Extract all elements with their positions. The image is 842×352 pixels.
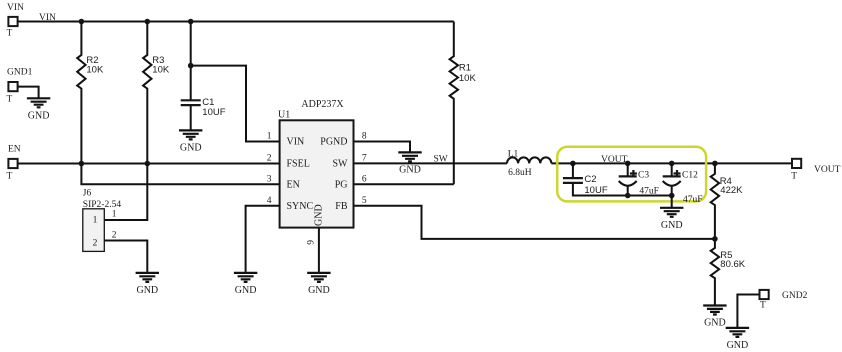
svg-text:47uF: 47uF	[683, 195, 703, 205]
svg-text:GND: GND	[308, 285, 330, 296]
inductor L1	[507, 149, 551, 178]
ground PGND	[398, 152, 421, 175]
ground under SYNC	[234, 273, 257, 296]
wire L1 to VOUT terminal	[551, 162, 791, 164]
ground under C12	[660, 208, 683, 231]
svg-text:9: 9	[307, 240, 317, 245]
svg-text:1: 1	[267, 132, 272, 142]
op-amp U1 ADP237X body	[278, 99, 354, 228]
svg-text:80.6K: 80.6K	[720, 259, 745, 270]
svg-text:2: 2	[267, 154, 272, 164]
wire PG pin 6 to R1	[354, 183, 454, 185]
node VIN-C1	[188, 19, 194, 25]
wire J6 pin 2 to ground	[104, 241, 147, 272]
svg-text:J6: J6	[83, 188, 92, 198]
resistor R4	[711, 161, 743, 239]
svg-text:47uF: 47uF	[639, 186, 659, 196]
wire SW pin 7 to L1	[354, 162, 508, 164]
svg-text:T: T	[7, 29, 13, 39]
svg-text:PG: PG	[335, 180, 348, 191]
svg-text:C2: C2	[584, 174, 596, 185]
ground GND1	[27, 98, 50, 121]
svg-text:SYNC: SYNC	[287, 201, 314, 212]
svg-text:T: T	[7, 172, 13, 182]
ground under GND2	[726, 328, 749, 351]
svg-text:VIN: VIN	[7, 3, 24, 13]
resistor R2	[77, 22, 104, 164]
svg-text:GND: GND	[661, 220, 683, 231]
svg-text:PGND: PGND	[320, 137, 347, 148]
node VIN-R3	[145, 19, 151, 25]
terminal GND1	[7, 68, 33, 105]
capacitor C12	[663, 161, 703, 206]
svg-text:VIN: VIN	[287, 137, 305, 148]
svg-text:T: T	[7, 95, 13, 105]
svg-text:8: 8	[362, 132, 367, 142]
svg-text:GND: GND	[180, 142, 202, 153]
capacitor C3	[619, 161, 659, 199]
svg-text:T: T	[791, 172, 797, 182]
wire C1 tap to U1 VIN pin 1	[191, 66, 280, 142]
terminal EN	[7, 145, 21, 182]
wire GND1 to ground	[18, 87, 38, 99]
node EN-R2	[79, 161, 85, 167]
svg-text:GND: GND	[704, 318, 726, 329]
wire GND2 to ground	[737, 295, 759, 328]
wire SYNC pin 4 to ground	[246, 206, 280, 272]
wire PGND pin 8 to ground	[354, 142, 411, 153]
ground under pin 9	[307, 273, 330, 296]
terminal GND2	[760, 290, 808, 310]
svg-text:GND: GND	[399, 164, 421, 175]
svg-text:1: 1	[93, 215, 98, 225]
svg-text:L1: L1	[508, 149, 519, 159]
svg-text:2: 2	[112, 231, 117, 241]
ground under R5	[703, 306, 726, 329]
svg-text:3: 3	[267, 175, 272, 185]
connector J6	[83, 188, 122, 251]
svg-text:10K: 10K	[152, 65, 170, 76]
svg-text:SW: SW	[434, 155, 448, 165]
wire FB pin 5 to divider	[354, 206, 715, 239]
node EN-R3	[145, 161, 151, 167]
svg-text:1: 1	[112, 209, 117, 219]
wire VIN rail	[18, 21, 454, 23]
wire C12 to ground	[671, 196, 673, 208]
resistor R3	[143, 22, 170, 164]
svg-text:U1: U1	[278, 110, 290, 121]
svg-text:C3: C3	[638, 171, 649, 181]
svg-text:6.8uH: 6.8uH	[508, 168, 532, 178]
svg-text:10UF: 10UF	[584, 185, 607, 196]
resistor R1	[450, 22, 477, 185]
node VIN-R2	[79, 19, 85, 25]
svg-text:2: 2	[93, 238, 98, 248]
ground under C1	[179, 130, 202, 153]
svg-text:SW: SW	[333, 158, 349, 169]
svg-text:GND2: GND2	[782, 291, 808, 301]
svg-text:10K: 10K	[86, 65, 104, 76]
svg-text:EN: EN	[287, 180, 300, 191]
svg-text:VOUT: VOUT	[601, 155, 628, 165]
terminal VOUT	[791, 159, 840, 182]
svg-text:VOUT: VOUT	[814, 165, 841, 175]
svg-text:422K: 422K	[720, 185, 743, 196]
terminal VIN	[7, 3, 25, 39]
capacitor C1	[181, 22, 226, 130]
capacitor C2	[563, 161, 672, 196]
wire R2 bottom to EN pin 3	[81, 164, 279, 185]
svg-text:10UF: 10UF	[202, 107, 225, 118]
highlight box around output caps	[557, 147, 706, 202]
svg-text:ADP237X: ADP237X	[301, 99, 344, 110]
svg-text:GND: GND	[235, 285, 257, 296]
svg-text:GND: GND	[314, 204, 325, 226]
svg-text:T: T	[760, 300, 766, 310]
wire R3 bottom to J6 pin 1	[104, 164, 147, 221]
svg-text:7: 7	[362, 154, 367, 164]
svg-text:GND: GND	[727, 340, 749, 351]
svg-text:GND1: GND1	[7, 68, 33, 78]
svg-text:GND: GND	[28, 110, 50, 121]
svg-text:10K: 10K	[459, 73, 477, 84]
node C1 tap	[188, 63, 194, 69]
svg-text:FB: FB	[335, 201, 348, 212]
svg-text:4: 4	[267, 196, 272, 206]
svg-text:EN: EN	[8, 145, 21, 155]
svg-text:GND: GND	[136, 285, 158, 296]
svg-text:FSEL: FSEL	[287, 158, 310, 169]
resistor R5	[711, 239, 746, 306]
wire EN terminal to FSEL pin 2	[18, 163, 279, 165]
svg-text:C12: C12	[682, 171, 698, 181]
node FB divider	[712, 236, 718, 242]
svg-text:VIN: VIN	[39, 13, 56, 23]
svg-text:5: 5	[362, 196, 367, 206]
ground under J6 pin 2	[136, 273, 159, 296]
wire pin 9 to ground	[318, 228, 320, 272]
svg-text:6: 6	[362, 175, 367, 185]
